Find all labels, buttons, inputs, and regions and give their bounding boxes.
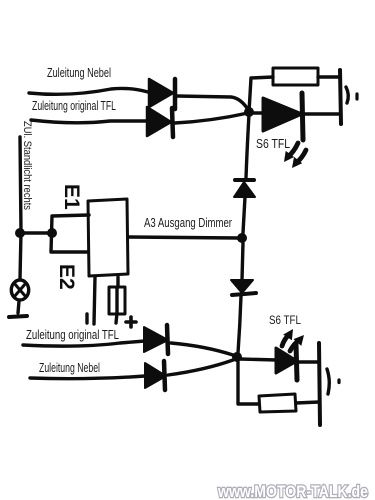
ground G1 (chassis, pointing right) [346,87,348,103]
wire D3 to terminal bar T1 [305,112,340,115]
svg-text:S6 TFL: S6 TFL [269,313,301,327]
wire D1 to node N1 [177,96,249,111]
terminal bar T2 [319,343,320,425]
diode D1 [149,79,173,107]
wire dimmer box to N2 [129,237,238,238]
wire D8 to terminal bar T2 [299,360,319,363]
diode D6 [144,327,168,352]
wire N1 to LED D3 [252,111,265,114]
wire N1 down to diode D4 [246,114,249,178]
node N3 [232,352,242,362]
wire D6 to node N3 [171,343,233,355]
LED D8 (S6 TFL bottom) [276,348,297,373]
wire R2 to terminal bar T2 [296,402,319,403]
wire Standlicht vertical line [20,137,21,279]
wire from Zuleitung original TFL to diode D2 [31,120,146,123]
ground G2 (chassis, pointing right) [327,369,329,394]
wire N3 to LED D8 [240,359,277,360]
svg-text:S6 TFL: S6 TFL [256,136,290,151]
diode D4 (points up) [235,178,254,182]
svg-text:Zuleitung original TFL: Zuleitung original TFL [32,98,116,113]
wire N2 down to diode D5 [242,243,243,280]
LED D3 (S6 TFL top) [263,98,302,131]
fuse F1 [109,287,125,314]
wire D4 to node N2 [243,197,245,233]
label + (plus) [129,317,133,327]
resistor R1 [273,68,318,85]
wire D7 to node N3 [168,360,233,375]
lamp L1 (Standlicht bulb) [11,280,28,300]
svg-text:A3 Ausgang Dimmer: A3 Ausgang Dimmer [144,216,232,230]
svg-text:Zuleitung original TFL: Zuleitung original TFL [26,328,119,342]
svg-text:www.MOTOR-TALK.de: www.MOTOR-TALK.de [217,482,368,500]
node N1 [244,107,254,117]
resistor R2 [259,394,296,412]
wire Zuleitung Nebel to diode D7 [30,376,145,379]
node dot2 on bracket [47,228,57,238]
wire from Zuleitung Nebel to diode D1 [29,88,148,94]
light arrows of LED D8 [282,334,290,346]
diode D7 [145,363,166,388]
light arrows of LED D3 [287,143,298,158]
wire N3 down to resistor R2 [238,362,259,404]
svg-text:E1: E1 [60,184,83,210]
input bracket (E1/E2 to box) [51,215,89,252]
wire R1 to right terminal bar [318,75,340,78]
svg-text:Zuleitung Nebel: Zuleitung Nebel [39,361,100,375]
diode D2 [147,107,171,136]
ground G3 under lamp [9,316,27,317]
wire D5 down to node N3 [238,296,241,353]
fuse F1 lead from box [116,277,119,287]
node dot1 on Standlicht line [15,228,25,238]
svg-text:ZUl. Standlicht rechts: ZUl. Standlicht rechts [21,121,33,210]
svg-text:Zuleitung Nebel: Zuleitung Nebel [47,65,111,80]
dimmer box U1 [88,199,128,276]
svg-text:E2: E2 [55,264,78,290]
node N2 [237,233,247,243]
wire N1 up to resistor R1 [249,77,273,112]
diode D5 (points down) [231,280,253,293]
wire Zuleitung original TFL to diode D6 [23,341,145,346]
terminal bar T1 [340,70,341,124]
minus lead below dimmer box [94,277,95,324]
wire dot1 to dot2 [22,231,48,234]
wire lamp to ground stub [18,301,19,313]
wire D2 to node N1 [175,113,248,123]
